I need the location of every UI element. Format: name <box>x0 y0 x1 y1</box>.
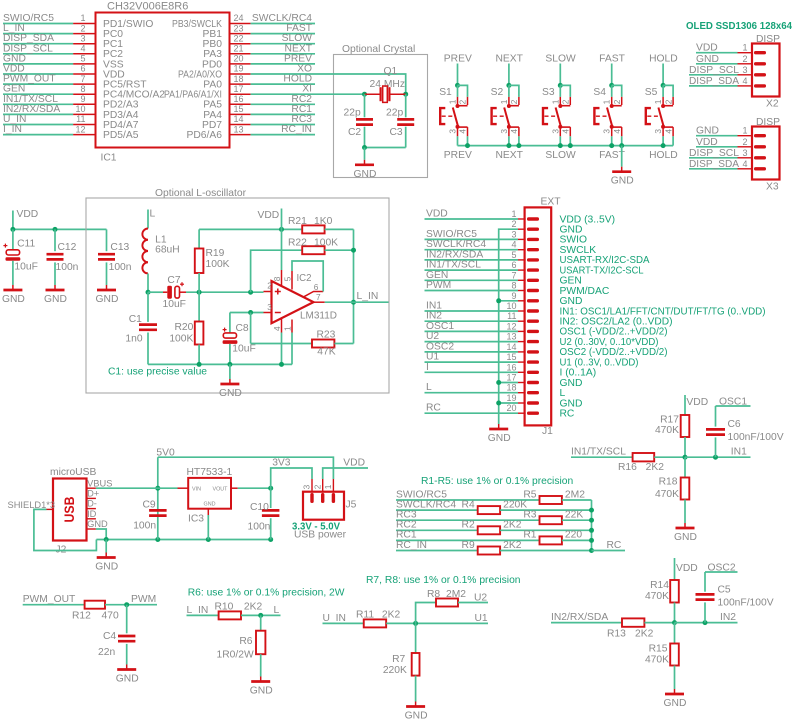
resistor R21 1K0 <box>288 216 354 233</box>
svg-text:GND: GND <box>204 502 216 508</box>
svg-text:17: 17 <box>506 373 516 383</box>
wire + net label HOLD (IC1 pin 18) <box>251 74 315 85</box>
svg-text:DISP_SDA: DISP_SDA <box>689 159 739 170</box>
wire VDD rail <box>13 211 107 230</box>
svg-text:IN1/TX/SCL: IN1/TX/SCL <box>571 447 626 458</box>
net label PWM_OUT + wire <box>23 594 85 605</box>
svg-text:100K: 100K <box>169 334 193 345</box>
svg-text:22p: 22p <box>344 108 361 119</box>
switch S3 (SLOW button) <box>542 54 576 161</box>
net label VDD (OSC1 divider) <box>686 397 708 408</box>
svg-text:DISP_SDA: DISP_SDA <box>689 76 739 87</box>
svg-text:8: 8 <box>272 276 282 281</box>
junction OSC1 center node <box>683 455 688 460</box>
svg-text:2: 2 <box>511 219 516 229</box>
junction VDD-C12 <box>53 227 58 232</box>
svg-text:R6: use 1% or 0.1% precision,: R6: use 1% or 0.1% precision, 2W <box>188 588 345 599</box>
wire shield to gnd <box>34 509 97 550</box>
svg-text:R22: R22 <box>288 238 307 249</box>
wire node to IN1 <box>685 456 751 458</box>
svg-text:IC1: IC1 <box>101 153 117 164</box>
junction rail-R22 <box>351 248 356 253</box>
svg-text:3: 3 <box>511 229 516 239</box>
svg-text:C8: C8 <box>236 323 249 334</box>
resistor R14 470K <box>645 558 679 623</box>
wire + net label I (J1 pin 16) <box>425 362 519 373</box>
svg-text:VDD: VDD <box>696 137 718 148</box>
resistor R5 2M2 + net label SWIO/RC5 <box>396 489 592 504</box>
wire inverting input net <box>230 312 264 314</box>
junction bus x=621.7 <box>619 143 624 148</box>
svg-text:47K: 47K <box>317 347 335 358</box>
junction gnd-R20 <box>197 362 202 367</box>
svg-text:2M2: 2M2 <box>446 589 466 600</box>
resistor R3 22K + net label RC3 <box>396 510 592 525</box>
svg-text:2K2: 2K2 <box>635 629 654 640</box>
junction main node (L1/C7/C1) <box>146 290 151 295</box>
wire IC2 pin1 to gnd bus <box>291 333 293 365</box>
net label VDD (OSC2 divider) <box>676 563 698 574</box>
wire 5V0 drop <box>157 457 159 539</box>
wire oscillator gnd bus <box>148 363 292 365</box>
resistor R12 470 <box>72 601 157 622</box>
ground R6 GND <box>250 677 273 697</box>
svg-text:L_IN: L_IN <box>357 291 379 302</box>
svg-text:L: L <box>274 605 280 616</box>
svg-text:1: 1 <box>550 99 560 104</box>
capacitor C3 22p <box>386 94 414 147</box>
junction bus x=467.5 <box>465 143 470 148</box>
net label U_IN + wire <box>323 613 364 624</box>
junction crystal left node <box>362 92 367 97</box>
junction crystal right node <box>403 92 408 97</box>
ground C4 GND <box>116 665 139 685</box>
ground USB GND <box>95 540 118 573</box>
frame Optional Crystal <box>334 44 428 178</box>
resistor R16 2K2 <box>618 453 685 473</box>
svg-text:VDD: VDD <box>686 397 708 408</box>
junction bus x=663.1 <box>661 143 666 148</box>
wire + net label NEXT (IC1 pin 21) <box>251 43 315 54</box>
resistor R23 47K <box>251 329 354 357</box>
svg-text:470K: 470K <box>645 591 669 602</box>
wire + net label VDD (X3 pin 2) <box>696 137 738 148</box>
svg-text:GND: GND <box>87 519 108 529</box>
capacitor C6 100nF/100V <box>706 406 784 457</box>
junction rail y=550.5 <box>589 548 594 553</box>
svg-text:PWM: PWM <box>426 280 451 291</box>
svg-text:GND: GND <box>354 169 377 180</box>
svg-text:R19: R19 <box>206 248 225 259</box>
svg-text:10uF: 10uF <box>163 299 186 310</box>
ground C12 GND <box>44 285 67 305</box>
svg-text:VDD: VDD <box>343 458 365 469</box>
resistor R6 1R0/2W <box>216 615 265 676</box>
svg-text:2: 2 <box>612 99 622 104</box>
svg-text:3: 3 <box>550 129 560 134</box>
svg-text:D+: D+ <box>87 489 99 499</box>
wire R23 left leg <box>250 313 252 344</box>
resistor R8 2M2 + wire to U2 <box>416 589 488 624</box>
svg-text:3: 3 <box>302 484 312 489</box>
wire right feedback rail <box>353 229 355 343</box>
svg-text:4: 4 <box>509 129 519 134</box>
svg-text:RC_IN: RC_IN <box>281 124 312 135</box>
svg-text:Optional L-oscillator: Optional L-oscillator <box>155 188 247 199</box>
note OLED SSD1306 128x64 <box>686 21 792 32</box>
wire + net label RC <box>592 540 626 551</box>
junction VDD-C11 <box>10 227 15 232</box>
wire + net label IN2/RX/SDA to R13 <box>551 612 622 623</box>
wire IC3 gnd <box>207 515 209 540</box>
wire + net label IN1/TX/SCL to R16 <box>571 447 633 458</box>
svg-text:15: 15 <box>234 104 244 114</box>
note C1: use precise value <box>108 367 207 378</box>
wire + net label SWCLK/RC4 (IC1 pin 24) <box>251 13 315 24</box>
svg-text:R8: R8 <box>427 589 440 600</box>
svg-text:19: 19 <box>506 393 516 403</box>
net label L + inductor L1 68uH <box>142 209 179 293</box>
junction bus x=560.3 <box>558 143 563 148</box>
svg-text:4: 4 <box>742 159 747 169</box>
svg-text:7: 7 <box>511 270 516 280</box>
svg-text:GND: GND <box>488 433 511 444</box>
svg-text:11: 11 <box>507 311 516 321</box>
svg-text:R15: R15 <box>649 644 668 655</box>
wire + net label IN2/RX/SDA (IC1 pin 10) <box>3 104 73 115</box>
svg-text:15: 15 <box>506 352 516 362</box>
svg-text:USB power: USB power <box>294 530 347 541</box>
resistor R19 100K <box>195 229 230 292</box>
resistor R10 2K2 <box>215 602 281 620</box>
svg-text:R21: R21 <box>288 216 307 227</box>
wire J1 gnd rail <box>499 229 518 424</box>
junction bus x=570.3 <box>568 143 573 148</box>
svg-text:470K: 470K <box>655 489 679 500</box>
svg-text:U1: U1 <box>475 613 488 624</box>
svg-text:VOUT: VOUT <box>213 486 229 492</box>
wire usb gnd pin <box>96 529 106 540</box>
net label IN1 <box>731 447 747 458</box>
switch S4 (FAST button) <box>593 54 625 161</box>
wire + net label GND (IC1 pin 5) <box>3 53 73 64</box>
wire RC ladder rail <box>591 500 593 551</box>
junction bus x=518.9 <box>516 143 521 148</box>
connector J1 EXT header <box>506 197 561 438</box>
wire noninverting input net <box>186 291 264 293</box>
svg-text:IC3: IC3 <box>188 514 204 525</box>
net label OSC2 + wire <box>705 563 738 574</box>
svg-text:R14: R14 <box>650 580 669 591</box>
junction OSC2 center node <box>672 620 677 625</box>
connector J5 power select <box>302 479 357 520</box>
svg-text:100n: 100n <box>109 262 132 273</box>
net label L_IN (oscillator output) <box>357 291 379 302</box>
svg-text:11: 11 <box>76 114 85 124</box>
wire J1 gnd stub pin 19 <box>496 401 518 406</box>
svg-text:VDD: VDD <box>17 209 39 220</box>
svg-text:VIN: VIN <box>192 486 201 492</box>
junction L node <box>258 613 263 618</box>
wire bottom gnd rail (usb section) <box>96 539 270 541</box>
wire + net label DISP_SCL (IC1 pin 4) <box>3 43 73 54</box>
svg-text:GND: GND <box>116 674 139 685</box>
wire + net label PWM (J1 pin 8) <box>425 280 519 291</box>
svg-text:2: 2 <box>80 23 85 33</box>
net label 5V0 + wire to X5 pin1 <box>156 448 333 480</box>
svg-text:LM311D: LM311D <box>300 311 337 322</box>
svg-text:3: 3 <box>267 303 272 312</box>
junction rail y=520.2 <box>589 518 594 523</box>
svg-text:18: 18 <box>506 383 516 393</box>
net name labels J1 right column <box>560 214 766 419</box>
wire + net label SLOW (IC1 pin 22) <box>251 33 315 44</box>
svg-text:VBUS: VBUS <box>87 478 112 488</box>
resistor R1 220 + net label RC1 <box>396 530 592 545</box>
svg-text:1R0/2W: 1R0/2W <box>216 650 253 661</box>
svg-text:C5: C5 <box>718 585 731 596</box>
wire net XI (pin 17 to crystal) <box>251 84 365 95</box>
junction R23 tap <box>248 310 253 315</box>
svg-text:HT7533-1: HT7533-1 <box>187 467 233 478</box>
svg-text:IN1: IN1 <box>731 447 747 458</box>
svg-text:D-: D- <box>87 499 97 509</box>
resistor R4 220K + net label SWCLK/RC4 <box>396 499 592 514</box>
wire + net label U1 (J1 pin 15) <box>425 352 519 363</box>
capacitor C1 1n0 <box>125 292 157 364</box>
ground oscillator GND <box>219 364 242 399</box>
svg-text:J1: J1 <box>542 426 553 437</box>
ground buttons GND <box>611 146 634 187</box>
svg-text:8: 8 <box>511 281 516 291</box>
svg-text:SLOW: SLOW <box>545 54 576 65</box>
wire + net label IN1/TX/SCL (IC1 pin 9) <box>3 94 73 105</box>
svg-text:GND: GND <box>696 54 719 65</box>
svg-text:OLED SSD1306 128x64: OLED SSD1306 128x64 <box>686 21 792 32</box>
wire C8 drop <box>229 313 231 333</box>
svg-text:GND: GND <box>405 711 428 719</box>
svg-text:PWM_OUT: PWM_OUT <box>23 594 76 605</box>
svg-text:1: 1 <box>323 484 333 489</box>
wire + net label RC1 (IC1 pin 15) <box>251 104 315 115</box>
svg-text:VDD: VDD <box>696 43 718 54</box>
wire pin5-pin6 strap <box>292 261 323 292</box>
wire + net label VDD (IC1 pin 6) <box>3 64 73 75</box>
svg-text:100K: 100K <box>314 238 338 249</box>
svg-text:GND: GND <box>664 698 687 709</box>
junction VDD drop <box>279 227 284 232</box>
connector J2 microUSB <box>8 467 113 556</box>
svg-text:14: 14 <box>234 114 244 124</box>
wire + net label DISP_SCL (X2 pin 3) <box>689 65 739 76</box>
wire + net label GEN (IC1 pin 8) <box>3 84 73 95</box>
wire + net label FAST (IC1 pin 23) <box>251 23 315 34</box>
junction gnd-C10 <box>268 537 273 542</box>
net label 3V3 + wire to X5 pin3 <box>271 458 312 489</box>
wire + net label OSC1 (J1 pin 12) <box>425 321 519 332</box>
net label PWM <box>131 594 156 605</box>
svg-text:22K: 22K <box>565 510 583 521</box>
svg-text:Optional Crystal: Optional Crystal <box>342 44 415 55</box>
svg-text:IN2: IN2 <box>720 612 736 623</box>
op-amp IC2 LM311D <box>264 270 338 333</box>
svg-text:HOLD: HOLD <box>649 150 678 161</box>
svg-text:J5: J5 <box>346 500 357 511</box>
svg-text:ID: ID <box>87 509 97 519</box>
svg-text:U2: U2 <box>474 592 487 603</box>
resistor R17 470K <box>655 395 689 457</box>
wire + net label RC (J1 pin 20) <box>425 403 519 414</box>
svg-text:3: 3 <box>653 129 663 134</box>
svg-text:4: 4 <box>458 129 468 134</box>
wire IC2 pin4 to gnd bus <box>281 333 283 365</box>
capacitor C9 100n <box>133 500 166 532</box>
capacitor C11 10uF (polarized) <box>3 229 37 285</box>
svg-text:R16: R16 <box>618 462 637 473</box>
resistor R7 220K <box>383 623 420 701</box>
resistor R13 2K2 <box>607 618 675 639</box>
wire + net label DISP_SDA (X2 pin 4) <box>689 76 739 87</box>
svg-text:I: I <box>426 362 429 373</box>
svg-text:6: 6 <box>314 282 319 292</box>
svg-text:PWM: PWM <box>131 594 156 605</box>
svg-text:X3: X3 <box>766 182 779 193</box>
svg-text:R1-R5: use 1% or 0.1% precisio: R1-R5: use 1% or 0.1% precision <box>421 476 574 487</box>
ground R7 GND <box>405 702 428 719</box>
net label U2 <box>474 592 487 603</box>
svg-text:R3: R3 <box>523 510 536 521</box>
resistor R20 100K <box>169 292 203 364</box>
wire + net label SWIO/RC5 (J1 pin 3) <box>425 229 519 240</box>
svg-text:3: 3 <box>742 65 747 75</box>
resistor R11 2K2 <box>356 610 488 628</box>
svg-text:C13: C13 <box>110 242 129 253</box>
svg-text:2: 2 <box>663 99 673 104</box>
svg-text:4: 4 <box>272 326 282 331</box>
note 3.3V - 5.0V <box>292 522 340 533</box>
svg-text:R6: R6 <box>239 636 252 647</box>
svg-text:1K0: 1K0 <box>314 216 333 227</box>
svg-text:100n: 100n <box>56 262 79 273</box>
svg-text:GND: GND <box>219 388 242 399</box>
wire + net label GND (X2 pin 2) <box>696 54 738 65</box>
svg-text:2K2: 2K2 <box>244 602 263 613</box>
svg-text:9: 9 <box>511 291 516 301</box>
note R7, R8: use 1% or 0.1% precision <box>366 575 521 586</box>
junction R22 feedback tap <box>248 290 253 295</box>
ground crystal GND <box>354 148 377 180</box>
IC IC1 CH32V006E8R6 microcontroller <box>73 1 251 164</box>
svg-text:S1: S1 <box>439 87 452 98</box>
net label OSC1 + wire <box>716 397 751 408</box>
wire R21 top rail <box>199 228 302 230</box>
svg-text:C1: use precise value: C1: use precise value <box>108 367 207 378</box>
svg-text:microUSB: microUSB <box>50 467 96 478</box>
junction VBUS-5V0 <box>155 486 160 491</box>
svg-text:L_IN: L_IN <box>187 605 209 616</box>
svg-text:Q1: Q1 <box>384 66 398 77</box>
svg-text:13: 13 <box>506 332 516 342</box>
wire + net label I_IN (IC1 pin 12) <box>3 124 73 135</box>
svg-text:PD6/A6: PD6/A6 <box>187 130 223 141</box>
svg-text:100nF/100V: 100nF/100V <box>718 598 774 609</box>
svg-text:FAST: FAST <box>599 54 625 65</box>
junction gnd-C9 <box>155 537 160 542</box>
svg-text:5: 5 <box>283 276 293 281</box>
wire + net label SWCLK/RC4 (J1 pin 4) <box>425 239 519 250</box>
resistor R2 2K2 + net label RC2 <box>396 520 592 535</box>
svg-text:21: 21 <box>234 44 244 54</box>
capacitor C7 10uF (polarized, horizontal) <box>148 275 186 310</box>
svg-text:S2: S2 <box>491 87 504 98</box>
svg-text:PREV: PREV <box>444 54 472 65</box>
svg-text:20: 20 <box>506 403 516 413</box>
svg-text:1: 1 <box>742 43 747 53</box>
svg-text:R11: R11 <box>356 610 374 621</box>
junction rail y=540.4 <box>589 538 594 543</box>
svg-text:8: 8 <box>80 84 85 94</box>
wire + net label PREV (IC1 pin 20) <box>251 53 315 64</box>
svg-text:R2: R2 <box>462 520 475 531</box>
svg-text:C6: C6 <box>728 419 741 430</box>
note R1-R5: use 1% or 0.1% precision <box>421 476 574 487</box>
svg-text:470K: 470K <box>645 655 669 666</box>
svg-text:IN2/RX/SDA: IN2/RX/SDA <box>551 612 608 623</box>
svg-text:6: 6 <box>80 64 85 74</box>
svg-text:10: 10 <box>506 301 516 311</box>
resistor R15 470K <box>645 623 679 689</box>
wire crystal gnd bus <box>365 147 406 149</box>
svg-text:100n: 100n <box>133 521 156 532</box>
junction U node <box>413 621 418 626</box>
svg-text:2K2: 2K2 <box>503 540 522 551</box>
svg-text:24: 24 <box>234 13 244 23</box>
svg-text:12: 12 <box>75 124 85 134</box>
svg-text:VDD: VDD <box>676 563 698 574</box>
ground C11 GND <box>2 285 25 305</box>
net label IN2 <box>720 612 736 623</box>
svg-text:16: 16 <box>506 362 516 372</box>
svg-text:7: 7 <box>80 74 85 84</box>
svg-text:100K: 100K <box>206 259 230 270</box>
svg-text:14: 14 <box>506 342 516 352</box>
ground C13 GND <box>96 285 119 305</box>
net label L (R6 node) <box>274 605 280 616</box>
svg-text:2K2: 2K2 <box>382 610 401 621</box>
svg-text:C2: C2 <box>348 127 361 138</box>
wire J1 gnd stub pin 9 <box>496 298 518 303</box>
note R6: use 1% or 0.1% precision, 2W <box>188 588 345 599</box>
junction gnd-pin4 <box>279 362 284 367</box>
junction PWM node <box>124 602 129 607</box>
svg-text:2M2: 2M2 <box>565 489 585 500</box>
svg-text:SLOW: SLOW <box>545 150 576 161</box>
svg-text:16: 16 <box>234 94 244 104</box>
svg-text:2: 2 <box>312 484 322 489</box>
svg-text:GND: GND <box>611 176 634 187</box>
wire VBUS to regulator <box>96 487 178 489</box>
wire J1 gnd stub pin 17 <box>496 380 518 385</box>
resistor R18 470K <box>655 457 689 523</box>
svg-text:GND: GND <box>44 294 67 305</box>
capacitor C13 100n <box>98 229 132 285</box>
net label VDD (oscillator) <box>258 210 280 221</box>
resistor R22 100K + feedback wire <box>251 238 354 293</box>
svg-text:L: L <box>426 382 432 393</box>
svg-text:R10: R10 <box>215 602 234 613</box>
svg-text:R7, R8: use 1% or 0.1% precisi: R7, R8: use 1% or 0.1% precision <box>366 575 521 586</box>
svg-text:NEXT: NEXT <box>495 150 523 161</box>
